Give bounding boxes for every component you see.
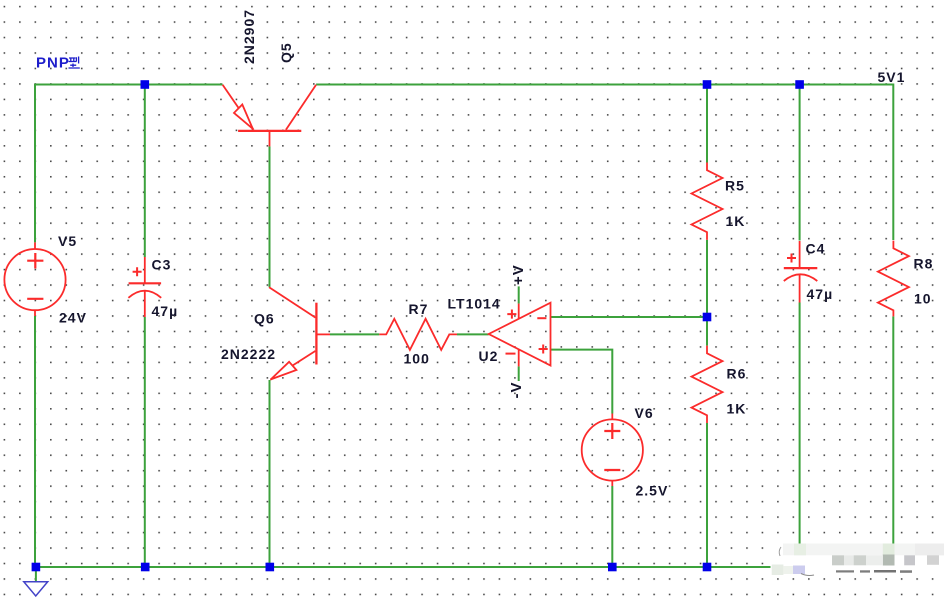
wire op-amp -V supply [518,366,520,381]
svg-text:Q5: Q5 [278,42,294,63]
wire C4 bottom [799,303,801,544]
wire R6 bottom lead [706,423,708,568]
capacitor C3 curved plate [128,291,161,298]
wire R8 bottom [892,316,894,543]
transistor Q6 arrow [271,362,297,380]
svg-text:V6: V6 [635,405,654,421]
wire V5 bottom to rail [34,316,36,568]
svg-text:5V1: 5V1 [878,69,906,85]
voltage source V5 plus [27,253,43,269]
wire C3 top [144,85,146,258]
resistor R7 [379,319,457,350]
svg-text:Q6: Q6 [254,311,275,327]
voltage source V6 circle [582,419,643,480]
transistor Q5 base bar [238,130,301,132]
op-amp U2 triangle [489,303,551,366]
voltage source V5 bottom stub [34,310,36,316]
transistor Q5 base stub [269,131,271,147]
wire C3 bottom [144,317,146,568]
wire Q6 base to R7 [330,333,379,335]
voltage source V6 top stub [611,414,613,420]
wire R5 top lead [706,85,708,163]
capacitor C4 curved plate [784,274,818,281]
capacitor C4 top plate [784,267,818,269]
voltage source V5 top stub [34,242,36,249]
svg-text:2N2222: 2N2222 [221,346,276,362]
svg-text:V5: V5 [58,233,77,249]
node ground rail Q6 [266,563,275,572]
svg-text:100: 100 [404,351,430,367]
transistor Q6 emitter [270,351,315,380]
wire left drop to V5 [34,84,36,243]
svg-text:10: 10 [914,291,932,307]
capacitor C4 bottom lead [799,275,801,303]
transistor Q6 base bar [315,303,317,365]
op-amp U2 inverting input mark [537,317,546,319]
op-amp U2 +V pin stub [518,304,520,319]
resistor R8 [878,241,909,317]
node C4 top [795,80,804,89]
svg-text:24V: 24V [59,310,87,326]
capacitor C3 plus sign [133,267,142,276]
node ground rail V5 [32,563,41,572]
transistor Q5 arrow [234,105,253,129]
wire R6 top lead [706,317,708,346]
capacitor C3 top lead [144,257,146,283]
transistor Q5 emitter [223,85,254,130]
wire Q5 base to Q6 collector [269,146,271,287]
op-amp U2 non-inverting input mark [539,345,548,354]
node ground rail V6 [608,563,617,572]
capacitor C4 top lead [799,241,801,268]
voltage source V5 minus [27,298,43,300]
svg-text:LT1014: LT1014 [448,296,501,312]
transistor Q6 base stub [316,333,330,335]
wire ground stub [35,567,37,582]
wire top-left rail [35,84,223,86]
watermark blur patch [771,544,944,577]
voltage source V5 circle [4,249,65,310]
wire top-right rail with corner [316,85,893,241]
node ground rail C3 [141,563,150,572]
node ground rail R6 [703,563,712,572]
wire op-amp non-inverting input to V6 [551,350,613,414]
voltage source V6 bottom stub [611,480,613,486]
ground [24,582,48,596]
svg-text:1K: 1K [726,213,746,229]
svg-text:R7: R7 [409,301,429,317]
svg-text:C3: C3 [152,257,172,273]
svg-text:R5: R5 [725,178,745,194]
capacitor C3 bottom lead [144,291,146,317]
wire C4 top [799,85,801,241]
wire bottom rail [35,566,771,568]
svg-text:R8: R8 [914,256,934,272]
red components [4,85,909,486]
transistor Q6 collector [269,287,315,317]
op-amp U2 plus supply mark [507,310,516,319]
wire op-amp +V supply [518,286,520,303]
voltage source V6 plus [604,423,620,439]
svg-text:1K: 1K [727,401,747,417]
resistor R5 [692,163,723,240]
svg-text:U2: U2 [479,348,499,364]
wire R5 bottom lead [706,240,708,317]
svg-text:47µ: 47µ [152,303,179,319]
node R5 top [703,80,712,89]
capacitor C3 top plate [129,282,162,284]
resistor R6 [692,346,723,423]
svg-text:C4: C4 [806,241,826,257]
op-amp U2 -V pin stub [518,349,520,366]
wire V6 bottom to rail [611,486,613,568]
op-amp U2 minus supply mark [506,353,516,355]
svg-text:PNP: PNP [36,55,70,72]
wire Q6 emitter down [269,380,271,568]
wire op-amp inverting input to node [551,316,708,318]
wire R7 to op-amp output [457,333,489,335]
voltage source V6 minus [604,469,620,471]
capacitor C4 plus sign [787,254,796,263]
svg-text:2.5V: 2.5V [636,483,669,499]
svg-text:2N2907: 2N2907 [241,9,257,64]
junction nodes [32,80,804,571]
svg-text:47µ: 47µ [807,286,834,302]
label CJK glyph xing [69,57,80,69]
node R5-R6 feedback [703,313,712,322]
svg-text:R6: R6 [727,366,747,382]
svg-text:+V: +V [510,264,527,285]
transistor Q5 collector [286,85,316,130]
node C3 top [141,80,150,89]
svg-text:-V: -V [508,382,525,399]
